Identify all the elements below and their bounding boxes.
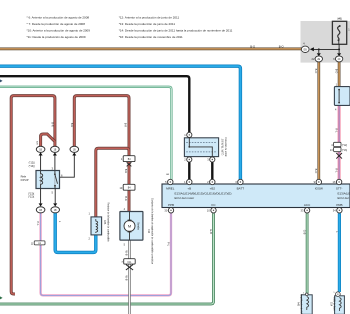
- wire L bus (cyan horizontal) to BATT: [0, 66, 240, 179]
- svg-text:1: 1: [121, 158, 123, 161]
- connector arrows above lower ovals (point down): [39, 203, 43, 206]
- svg-text:F2B: F2B: [103, 220, 106, 225]
- ECU pin PRB (bottom): [333, 203, 343, 213]
- connector ovals below relay: [36, 207, 59, 213]
- svg-text:+B2: +B2: [210, 186, 216, 190]
- noise filter pin 1: [184, 132, 192, 137]
- svg-text:G-B: G-B: [209, 229, 213, 234]
- svg-text:*12: Anterior a la producción: *12: Anterior a la producción de junio d…: [119, 16, 180, 20]
- left edge continuation arrow: [0, 79, 3, 82]
- svg-text:1: 1: [89, 213, 91, 216]
- relay block gray background: [301, 21, 350, 63]
- svg-text:*10: Anterior a la producción: *10: Anterior a la producción de agosto …: [27, 28, 91, 32]
- wire B-O bus (battery, tan horizontal): [0, 48, 302, 51]
- wire B-O tan: oval 6 down to ST relay box: [338, 62, 341, 87]
- circuit breaker box in relay block: [332, 18, 350, 45]
- footnote text column 2: [119, 16, 233, 39]
- wire B black: filter pin3 to +B2: [211, 162, 213, 179]
- svg-text:10: 10: [207, 208, 210, 212]
- svg-text:34: 34: [333, 208, 336, 212]
- svg-text:F/PUP: F/PUP: [21, 178, 29, 182]
- wire W-B gray below pump: [128, 240, 131, 314]
- svg-text:13: 13: [330, 149, 333, 152]
- svg-text:5: 5: [124, 243, 126, 246]
- inline connector 11 A1 on P-L wire: [31, 241, 45, 246]
- svg-text:J 8 N(*6), M(*7): J 8 N(*6), M(*7): [221, 139, 224, 156]
- wire GR (sage green) to MREL: [0, 87, 171, 180]
- ECU pin PPB (bottom): [164, 203, 174, 213]
- svg-text:*11: Desde la producción de ag: *11: Desde la producción de agosto de 20…: [27, 35, 86, 39]
- fuel pump resistor box: [89, 213, 102, 241]
- svg-text:4: 4: [124, 208, 126, 211]
- noise filter pin 2: [184, 157, 192, 162]
- junction node dot: [318, 48, 320, 50]
- svg-text:B-R: B-R: [124, 196, 128, 201]
- ECU pin IGSW: [314, 179, 323, 190]
- svg-text:R-L: R-L: [335, 128, 339, 133]
- svg-text:5: 5: [52, 191, 54, 195]
- svg-text:1B: 1B: [39, 149, 42, 151]
- connector oval E1 on B-O bus: [301, 42, 309, 53]
- thin wire inside relay block: [314, 44, 339, 53]
- inline connector pair 4/13 on R-L wire: [330, 142, 347, 152]
- wire B-O tan: oval 22 down to IGSW: [317, 62, 320, 180]
- svg-text:Rele: Rele: [21, 174, 27, 178]
- fuel pump assembly box: [120, 208, 143, 247]
- svg-text:MREL: MREL: [166, 186, 175, 190]
- wire P-L purple: relay to PPB pin big U: [41, 213, 171, 296]
- svg-text:* 6: Anterior a la producción: * 6: Anterior a la producción de agosto …: [27, 16, 90, 20]
- svg-text:*13: Desde la producción de ju: *13: Desde la producción de junio de 201…: [119, 22, 176, 26]
- svg-text:4: 4: [335, 108, 337, 111]
- svg-text:(*13)(: (*13)(: [29, 165, 35, 168]
- svg-text:ACC: ACC: [304, 203, 311, 207]
- svg-text:E13/A(LE14)/B(LE15)/C(LE16)/D(: E13/A(LE14)/B(LE15)/C(LE16)/D(LE17)(E): [175, 191, 232, 195]
- svg-text:3: 3: [207, 158, 209, 162]
- svg-text:P-L: P-L: [166, 242, 170, 247]
- svg-text:1B: 1B: [73, 149, 76, 151]
- svg-text:1: 1: [184, 133, 186, 137]
- svg-text:EB: EB: [304, 49, 308, 51]
- connector ovals A,B,C above relay: [36, 146, 78, 152]
- wire red Y-branch to oval A: [41, 134, 55, 146]
- ECU pin BATT: [235, 179, 244, 190]
- svg-text:Resistor de la bomba de combus: Resistor de la bomba de combustible: [106, 202, 109, 242]
- svg-text:L: L: [58, 221, 62, 223]
- svg-text:A45: A45: [297, 302, 300, 307]
- svg-text:GR: GR: [166, 174, 170, 176]
- svg-text:Amplificador de A/A: Amplificador de A/A: [299, 294, 302, 314]
- svg-text:B-R: B-R: [124, 123, 128, 128]
- svg-text:(*13): (*13): [342, 149, 347, 152]
- wire B black: filter pin2 to +B: [188, 162, 190, 179]
- svg-text:B-R: B-R: [36, 141, 38, 145]
- svg-text:30: 30: [164, 208, 167, 212]
- svg-text:W-B: W-B: [125, 251, 129, 256]
- svg-text:2: 2: [89, 238, 91, 241]
- svg-text:7: 7: [121, 261, 123, 264]
- svg-text:BATT: BATT: [237, 186, 245, 190]
- svg-text:1: 1: [333, 292, 335, 294]
- svg-text:2C: 2C: [338, 59, 341, 61]
- inline connector 10 on pump wire: [120, 184, 135, 190]
- svg-text:ECU del motor: ECU del motor: [175, 196, 195, 200]
- svg-text:2E: 2E: [317, 59, 320, 61]
- svg-text:*16: Desde la producción de no: *16: Desde la producción de noviembre de…: [119, 35, 183, 39]
- svg-text:PPB: PPB: [168, 203, 174, 207]
- svg-text:Conector de unión: Conector de unión: [224, 137, 227, 157]
- connector oval 6: [333, 56, 343, 62]
- svg-text:* 7: Desde la producción de ag: * 7: Desde la producción de agosto de 20…: [27, 22, 86, 26]
- noise filter pin 3: [207, 157, 215, 162]
- svg-text:1B: 1B: [39, 210, 42, 212]
- svg-text:2: 2: [184, 158, 186, 162]
- inline connector 1 on pump wire: [121, 156, 135, 162]
- relay Rele F/PUP box: [36, 166, 63, 194]
- svg-text:4: 4: [331, 144, 333, 147]
- svg-text:B-O: B-O: [250, 44, 255, 48]
- ECU pin FC (bottom): [207, 203, 216, 213]
- svg-text:ECU del mot: ECU del mot: [338, 196, 350, 200]
- svg-text:S14: S14: [330, 302, 332, 307]
- small twist X: [127, 162, 132, 166]
- svg-text:Conjunto de la bomba de aspira: Conjunto de la bomba de aspiración de co…: [150, 198, 153, 264]
- wire B bus (black horizontal) to noise filter: [0, 76, 189, 132]
- svg-text:(*12)(: (*12)(: [28, 196, 34, 199]
- wire red between connectors to pump: [128, 162, 131, 212]
- svg-text:(#B): (#B): [337, 18, 342, 21]
- svg-text:B-O: B-O: [314, 169, 318, 174]
- twist X symbol: [126, 265, 133, 271]
- svg-text:10: 10: [120, 187, 123, 190]
- svg-text:ECU de llave: ECU de llave: [332, 297, 334, 311]
- connector arrow above oval 22 (points down): [317, 53, 321, 56]
- thin wires relay to lower ovals: [41, 189, 56, 204]
- svg-text:G-B: G-B: [303, 230, 307, 235]
- svg-text:W-B: W-B: [125, 276, 129, 281]
- svg-text:(*12): (*12): [342, 144, 347, 147]
- ST cut relay box (top right blue): [334, 84, 350, 112]
- ECU pin MREL: [165, 174, 175, 190]
- svg-text:33: 33: [301, 208, 304, 212]
- wire FC green (bottom horizontal, to FC pin): [0, 213, 214, 304]
- svg-text:PRB: PRB: [336, 203, 342, 207]
- svg-text:3: 3: [52, 166, 54, 170]
- svg-text:1: 1: [303, 292, 305, 294]
- twist X symbol: [336, 153, 342, 159]
- svg-text:*14: Desde la producción de ju: *14: Desde la producción de junio de 201…: [119, 28, 233, 32]
- wire L blue: PRB pin down to bottom connector: [338, 213, 341, 292]
- svg-text:B-R: B-R: [70, 123, 74, 128]
- wire red resistor arch to pump wire: [96, 148, 129, 217]
- svg-text:P-L: P-L: [36, 221, 40, 226]
- svg-text:F10: F10: [147, 229, 150, 234]
- svg-text:1B: 1B: [54, 210, 57, 212]
- ECU pin +B2: [207, 179, 215, 190]
- svg-text:+B: +B: [187, 186, 191, 190]
- svg-text:11: 11: [31, 242, 34, 245]
- ECU pin ACC (bottom): [301, 203, 312, 213]
- connector arrow (points left): [310, 47, 314, 51]
- left edge continuation arrow: [0, 296, 3, 299]
- ECU pin STT-: [333, 179, 343, 190]
- ECU pin +B: [184, 179, 192, 190]
- junction node dot: [338, 48, 340, 50]
- svg-text:B-O: B-O: [314, 69, 318, 74]
- svg-text:B-O: B-O: [279, 44, 284, 48]
- svg-text:Bomba: Bomba: [136, 222, 139, 230]
- svg-text:IGSW: IGSW: [315, 186, 323, 190]
- svg-text:B-O: B-O: [335, 69, 339, 74]
- wire G green: ACC pin down to amplifier: [306, 213, 309, 295]
- connector arrow above oval 6 (points down): [337, 53, 341, 56]
- wire L cyan: relay to resistor bottom U: [55, 213, 96, 253]
- connector arrows below ovals (point up): [39, 152, 43, 155]
- ECU band (ECU del motor): [162, 184, 350, 208]
- footnote text column 1: [27, 16, 91, 39]
- wire R red U2: oval C up, over, down to pump connector: [74, 96, 129, 156]
- thin wires ovals to relay box: [41, 156, 75, 178]
- svg-text:E13/A(LE14)/B: E13/A(LE14)/B: [338, 191, 350, 195]
- svg-text:1B: 1B: [53, 149, 56, 151]
- svg-text:R-L: R-L: [335, 168, 339, 173]
- connector oval 22: [312, 56, 323, 62]
- wire R-L pink: relay box down to STT- pin: [338, 106, 341, 180]
- svg-text:C11: C11: [127, 262, 132, 264]
- bottom right connector box (blue wire): [333, 292, 344, 314]
- svg-text:B-R: B-R: [51, 122, 55, 127]
- A/C amplifier connector box (bottom, green wire): [301, 292, 312, 314]
- noise filter box: [184, 138, 218, 157]
- inline connector 7 below pump: [121, 259, 135, 264]
- wire R main red: left L-stub, long left vertical, top horizontal to split: [11, 96, 55, 294]
- svg-text:B-R: B-R: [124, 169, 128, 174]
- svg-text:STT-: STT-: [336, 186, 343, 190]
- svg-text:M: M: [128, 224, 131, 229]
